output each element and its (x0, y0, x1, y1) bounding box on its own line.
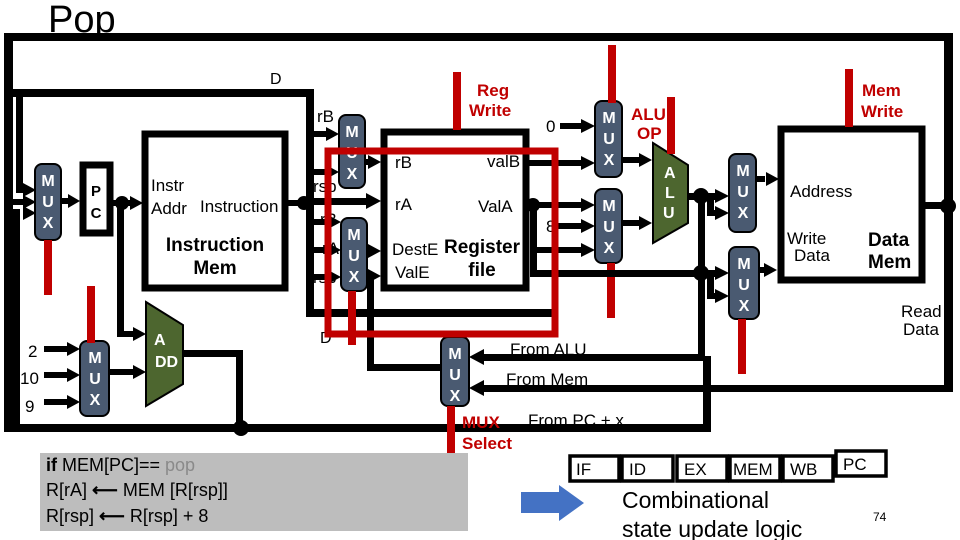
wire vertical joining bottom frame (703, 356, 711, 430)
mux aluA-select (595, 101, 622, 177)
memory Data Mem (781, 129, 922, 280)
mux dest-select (341, 218, 367, 291)
wire up to address-mux input 1 (701, 189, 729, 203)
wire writedata-mux output to Data Mem (759, 263, 777, 277)
wire outer frame top (4, 33, 952, 41)
wire ValA output with junction (526, 198, 595, 212)
svg-text:M: M (737, 256, 750, 273)
alu ALU (653, 143, 688, 243)
mux address-select (729, 154, 756, 232)
svg-text:ALU: ALU (631, 105, 666, 124)
svg-text:M: M (347, 227, 360, 244)
wire to writedata-mux input 2 (707, 273, 729, 303)
wire PC-mux output to PC (61, 194, 80, 208)
wire 10 into increment mux (44, 368, 80, 382)
wire ADD output down to bottom line (183, 350, 249, 436)
svg-text:Mem: Mem (193, 258, 236, 279)
wire rA stub into dest-mux (310, 243, 341, 257)
svg-text:R[rA] ⟵ MEM [R[rsp]]: R[rA] ⟵ MEM [R[rsp]] (46, 480, 228, 500)
wire 8 into aluB-mux (556, 219, 595, 233)
pipeline stage EX (677, 456, 727, 481)
wire down to From ALU line (698, 273, 705, 361)
wire mux-select output horizontal y367 (370, 364, 441, 371)
svg-text:ID: ID (629, 460, 646, 479)
wire PC output branch down to ADD (117, 203, 124, 334)
wire lower feedback to PC-mux input 3 (13, 206, 36, 424)
svg-text:Write: Write (861, 102, 903, 121)
svg-text:Addr: Addr (151, 199, 187, 218)
svg-text:PC: PC (843, 455, 867, 474)
annotation ALU OP (red) (631, 105, 666, 143)
signal bar Mem Write (red) (845, 69, 853, 127)
signal bar ALU OP (red) (667, 97, 675, 154)
wire to address-mux input 2 (707, 196, 729, 220)
svg-text:74: 74 (873, 510, 887, 524)
svg-text:WB: WB (790, 460, 817, 479)
wire rB stub into rB-mux (310, 127, 339, 141)
svg-text:A: A (664, 165, 676, 182)
register file (384, 132, 526, 288)
svg-text:rB: rB (317, 107, 334, 126)
svg-text:Register: Register (444, 237, 521, 258)
svg-text:ValE: ValE (395, 263, 430, 282)
svg-text:R[rsp] ⟵ R[rsp] + 8: R[rsp] ⟵ R[rsp] + 8 (46, 506, 208, 526)
svg-text:9: 9 (25, 397, 34, 416)
svg-text:X: X (43, 215, 54, 232)
arrow blue (521, 485, 584, 521)
svg-text:From Mem: From Mem (506, 370, 588, 389)
wire rB-mux output to register file rB (365, 155, 381, 169)
svg-text:M: M (736, 163, 749, 180)
wire D down-left branch (16, 89, 36, 197)
wire D lower horizontal y313 (306, 309, 556, 317)
pipeline stage WB (783, 456, 833, 481)
svg-text:Mem: Mem (862, 81, 901, 100)
mux writedata-select (729, 247, 759, 319)
svg-text:Instruction: Instruction (200, 197, 278, 216)
label Read Data (901, 302, 942, 339)
wire frame to PC-mux input 2 (11, 195, 36, 209)
pipeline stage IF (570, 456, 619, 481)
wire D vertical trunk (306, 89, 314, 317)
wire From ALU horizontal (469, 349, 705, 365)
svg-text:From ALU: From ALU (510, 340, 587, 359)
svg-text:Write: Write (469, 101, 511, 120)
select bar (red) below dest mux (348, 291, 356, 345)
svg-text:M: M (602, 110, 615, 127)
svg-text:U: U (738, 277, 750, 294)
select bar (red) above aluA mux (608, 45, 616, 103)
wire 2 into increment mux (44, 342, 80, 356)
highlight rectangle (red) around register select (328, 151, 555, 334)
svg-text:Select: Select (462, 434, 512, 453)
wire From Mem horizontal (469, 380, 948, 396)
svg-text:U: U (449, 367, 461, 384)
adder ADD (146, 302, 183, 406)
wire into ADD input 1 (117, 327, 146, 341)
select bar (red) above increment mux (87, 286, 95, 343)
code box background (40, 453, 468, 531)
wire rB stub into dest-mux (310, 215, 341, 229)
wire rsp stub into rB-mux (310, 165, 339, 179)
wire outer frame left (4, 33, 13, 432)
svg-text:M: M (345, 124, 358, 141)
svg-text:X: X (347, 166, 358, 183)
svg-text:M: M (41, 173, 54, 190)
wire valB to aluA-mux (526, 156, 595, 170)
annotation MUX Select (red) (462, 413, 512, 453)
svg-text:valB: valB (487, 152, 520, 171)
svg-text:if MEM[PC]== pop: if MEM[PC]== pop (46, 455, 195, 475)
select bar (red) below PC mux (44, 240, 52, 295)
signal bar Reg Write (red) (453, 72, 461, 130)
wire D horizontal (13, 89, 314, 97)
wire address-mux output to Data Mem (756, 172, 779, 186)
annotation Reg Write (red) (469, 81, 511, 120)
svg-text:DD: DD (155, 354, 178, 371)
svg-text:Read: Read (901, 302, 942, 321)
mux increment-select (80, 341, 109, 416)
wire rA into register file (310, 193, 381, 209)
svg-text:ValA: ValA (478, 197, 513, 216)
wire increment mux output to ADD (109, 365, 146, 379)
svg-text:M: M (448, 346, 461, 363)
svg-text:MEM: MEM (733, 460, 773, 479)
svg-text:Data: Data (794, 246, 830, 265)
svg-text:X: X (604, 152, 615, 169)
svg-text:rA: rA (395, 195, 413, 214)
wire writeback data up to ValE (367, 269, 381, 371)
pipeline stage MEM (730, 456, 780, 481)
svg-text:X: X (90, 392, 101, 409)
svg-text:C: C (91, 205, 102, 222)
wire Data Mem read output to right frame (922, 198, 956, 214)
svg-text:U: U (42, 194, 54, 211)
svg-text:file: file (468, 260, 495, 281)
pipeline stage PC (836, 451, 886, 476)
select bar (red) below writedata mux (738, 319, 746, 374)
mux aluB-select (595, 189, 622, 263)
svg-text:M: M (602, 198, 615, 215)
svg-text:Instruction: Instruction (166, 235, 264, 256)
svg-text:L: L (665, 185, 675, 202)
mux writeback-select (441, 337, 469, 406)
select bar (red) below aluB mux (607, 263, 615, 318)
svg-text:10: 10 (20, 369, 39, 388)
pipeline stage ID (622, 456, 673, 481)
svg-text:U: U (603, 131, 615, 148)
wire ValA to aluB-mux input 3 (530, 243, 595, 257)
svg-text:X: X (739, 298, 750, 315)
svg-text:Combinational: Combinational (622, 487, 769, 513)
svg-text:Data: Data (903, 320, 939, 339)
svg-text:X: X (349, 269, 360, 286)
svg-text:A: A (154, 332, 166, 349)
wire 9 into increment mux (44, 395, 80, 409)
svg-text:U: U (348, 248, 360, 265)
mux PC-select (35, 164, 61, 240)
svg-text:2: 2 (28, 342, 37, 361)
caption Combinational state update logic (622, 487, 802, 540)
svg-text:OP: OP (637, 124, 662, 143)
wire instruction output to trunk (285, 196, 311, 210)
svg-text:From PC + x: From PC + x (528, 411, 624, 430)
svg-text:Reg: Reg (477, 81, 509, 100)
svg-text:U: U (89, 371, 101, 388)
svg-text:X: X (450, 388, 461, 405)
svg-text:D: D (270, 71, 282, 88)
wire outer frame bottom (From PC + x) (4, 424, 711, 432)
wire rsp stub into dest-mux (310, 270, 341, 284)
wire 0 into aluA-mux (560, 119, 595, 133)
memory Instruction Mem (145, 134, 285, 288)
svg-text:U: U (603, 219, 615, 236)
svg-text:state update logic: state update logic (622, 516, 802, 540)
svg-text:M: M (88, 350, 101, 367)
svg-text:IF: IF (576, 460, 591, 479)
svg-text:U: U (737, 184, 749, 201)
svg-text:MUX: MUX (462, 413, 500, 432)
svg-text:Data: Data (868, 230, 910, 251)
svg-text:P: P (91, 183, 101, 200)
mux rB-select (339, 115, 365, 188)
svg-text:DestE: DestE (392, 240, 438, 259)
svg-text:X: X (604, 240, 615, 257)
svg-text:EX: EX (684, 460, 707, 479)
wire dest-mux output to DestE (367, 244, 381, 258)
svg-text:0: 0 (546, 117, 555, 136)
svg-text:X: X (738, 205, 749, 222)
wire aluB-mux output to ALU (622, 216, 652, 230)
wire aluA-mux output to ALU (622, 153, 652, 167)
wire PC output to Instruction Mem (110, 196, 143, 210)
register PC (83, 165, 110, 233)
wire ALU output (688, 188, 720, 204)
svg-text:rB: rB (395, 153, 412, 172)
wire ValA down branch (530, 205, 537, 277)
wire ALU output down branch (693, 196, 709, 281)
svg-text:Instr: Instr (151, 176, 184, 195)
svg-text:Address: Address (790, 182, 852, 201)
svg-text:Mem: Mem (868, 252, 911, 273)
svg-text:U: U (663, 205, 675, 222)
annotation Mem Write (red) (861, 81, 903, 121)
wire outer frame right (944, 33, 953, 392)
select bar (red) below writeback mux (447, 406, 455, 454)
wire ValA/ALU line to writedata-mux input 1 (530, 266, 729, 280)
